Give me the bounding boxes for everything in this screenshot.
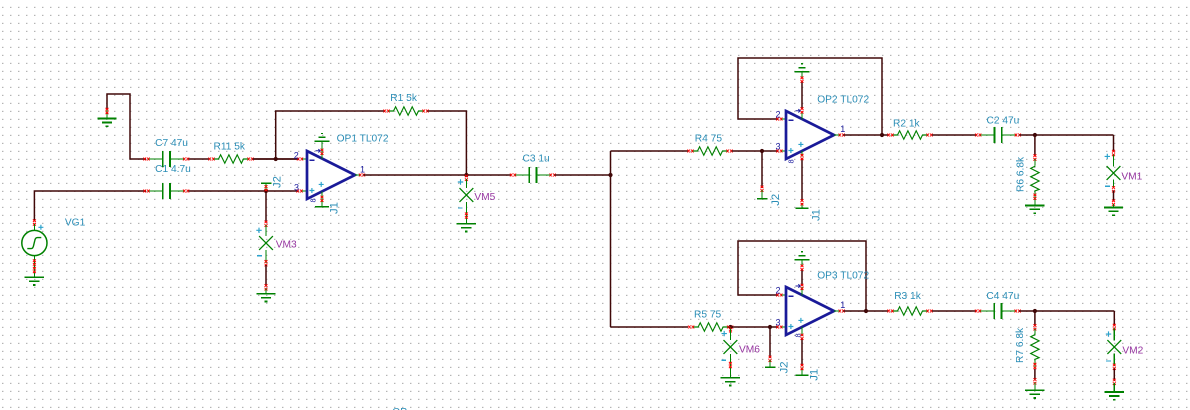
OP1 pin8 stem xyxy=(321,192,323,207)
svg-text:OP1 TL072: OP1 TL072 xyxy=(337,133,389,144)
wire OP3 pin8 xyxy=(801,338,803,367)
OP1 pin 2 number xyxy=(294,151,299,161)
wire OP1 output to C3 xyxy=(364,174,512,176)
wire VM2 to ground xyxy=(1113,369,1115,381)
resistor R5 75 xyxy=(688,310,733,332)
svg-text:VG1: VG1 xyxy=(65,217,86,228)
wire N1 to OP1 pin2 xyxy=(253,158,299,160)
voltmeter VM1 xyxy=(1105,154,1143,187)
VM1 minus pin tick xyxy=(1112,186,1115,192)
jumper J2 OP1 stem xyxy=(265,183,267,190)
VM2 top stem xyxy=(1113,329,1115,341)
wire N10 to VM1 xyxy=(1113,135,1115,152)
OP1 top power stem xyxy=(321,141,323,158)
OP2 top power stem lower xyxy=(801,112,803,119)
ground below VM1 xyxy=(1104,207,1123,215)
R6 bottom lead xyxy=(1034,192,1036,205)
svg-text:J2: J2 xyxy=(770,194,782,206)
svg-text:J2: J2 xyxy=(779,361,791,373)
OP1 pin 1 number xyxy=(360,165,365,175)
wire VM1 to ground xyxy=(1113,191,1115,202)
jumper J2 OP1 tick xyxy=(265,185,268,191)
wire R4 to OP2 pin3 xyxy=(732,150,778,152)
voltmeter VM3 xyxy=(256,228,297,256)
R7 ground tick xyxy=(1033,378,1036,384)
svg-text:J1: J1 xyxy=(809,369,821,381)
VG1 plus mark xyxy=(38,225,43,230)
jumper J2 OP3 stem xyxy=(769,360,771,367)
svg-text:J1: J1 xyxy=(329,202,341,214)
wire N10 down to R6 xyxy=(1034,135,1036,156)
OP3 pin8 ticks xyxy=(801,334,804,370)
OP3 pin 2 number xyxy=(776,286,781,296)
OP3 pin 1 number xyxy=(840,300,845,310)
OP2 pin8 stem lower xyxy=(801,203,803,208)
op-amp OP1 TL072 xyxy=(307,133,389,199)
svg-text:3: 3 xyxy=(776,142,781,152)
VM2 ground stem xyxy=(1113,383,1115,392)
svg-text:1: 1 xyxy=(360,165,365,175)
jumper J1 of OP1 xyxy=(315,206,329,208)
OP3 pin2 stub xyxy=(781,294,786,296)
wire ground G1 to C7 node xyxy=(107,94,146,159)
OP2 power ticks xyxy=(801,77,804,114)
capacitor C3 1u xyxy=(510,154,556,184)
op-amp OP2 TL072 xyxy=(786,94,869,159)
VM2 bottom stem xyxy=(1113,354,1115,366)
ground below VM5 xyxy=(457,224,476,232)
VM3 bottom stem xyxy=(265,250,267,263)
svg-text:8: 8 xyxy=(794,333,803,337)
VM1 ground tick xyxy=(1112,200,1115,206)
svg-text:R7 6.8k: R7 6.8k xyxy=(1015,327,1026,363)
svg-text:C4 47u: C4 47u xyxy=(986,291,1019,302)
R6 top lead xyxy=(1034,159,1036,165)
jumper J2 of OP2 xyxy=(757,198,768,200)
OP1 top power tick xyxy=(321,149,324,155)
svg-text:2: 2 xyxy=(294,151,299,161)
wire R11 to node N1 xyxy=(253,158,299,160)
OP2 pin8 stem upper xyxy=(801,151,803,157)
voltmeter VM6 xyxy=(722,331,761,360)
svg-text:8: 8 xyxy=(787,159,796,163)
wire VG1 to C1 xyxy=(34,191,146,222)
OP1 pin 8 number xyxy=(309,198,318,202)
R7 top tick xyxy=(1033,324,1036,330)
VM5 bottom stem xyxy=(465,202,467,224)
wire OP2 power xyxy=(801,81,803,109)
jumper J1 of OP2 xyxy=(796,207,809,209)
node N3 junction xyxy=(264,189,268,193)
svg-text:R11 5k: R11 5k xyxy=(214,142,246,153)
wire OP2 output to R2 xyxy=(844,134,889,136)
OP3 power pin arrow xyxy=(796,284,801,287)
clipped label at bottom edge xyxy=(392,407,407,410)
wire R1 to output node N2 xyxy=(428,111,467,174)
label J1 of OP3 xyxy=(809,369,821,381)
jumper J2 of OP3 xyxy=(765,366,776,368)
wire OP2 feedback loop xyxy=(738,58,882,134)
label J1 of OP2 xyxy=(811,209,823,221)
jumper J2 OP3 tick xyxy=(769,356,772,362)
svg-text:OP3 TL072: OP3 TL072 xyxy=(817,270,869,281)
OP2 plus input mark xyxy=(788,148,793,153)
OP2 power pin arrow xyxy=(796,109,801,112)
wire C2 to node N10 xyxy=(1020,134,1114,136)
voltage generator VG1 symbol xyxy=(22,217,86,255)
resistor R3 1k xyxy=(887,291,932,315)
node N10 junction xyxy=(1033,133,1037,137)
svg-text:VM1: VM1 xyxy=(1121,171,1142,182)
VM3 top stem xyxy=(265,225,267,236)
OP2 pin3 stub xyxy=(781,150,786,152)
resistor R1 5k xyxy=(383,93,428,115)
ground G1 xyxy=(97,119,116,127)
R7 ground stem xyxy=(1034,383,1036,391)
OP1 output tick xyxy=(359,174,365,177)
svg-text:2: 2 xyxy=(776,286,781,296)
node N4 junction xyxy=(608,173,612,177)
OP1 pin2 stub xyxy=(302,158,308,160)
node N2 junction xyxy=(464,173,468,177)
OP3 pin8 stem upper xyxy=(801,327,803,336)
OP3 input pin ticks xyxy=(776,294,782,329)
ground G1 stem xyxy=(106,110,108,119)
wire N11 down to R7 xyxy=(1034,311,1036,326)
capacitor C4 47u xyxy=(975,291,1021,319)
R6 top tick xyxy=(1033,154,1036,160)
node N6 junction xyxy=(880,133,884,137)
VG1 top pin tick xyxy=(33,219,36,225)
OP2 output tick xyxy=(839,134,845,137)
OP2 input pin ticks xyxy=(776,118,782,153)
OP1 power plus mark xyxy=(319,182,324,187)
resistor R2 1k xyxy=(887,118,932,139)
resistor R11 5k xyxy=(208,142,253,164)
resistor R6 6.8k xyxy=(1016,156,1040,192)
ground below VM3 xyxy=(256,294,275,302)
wire C4 to node N11 xyxy=(1019,310,1114,312)
resistor R4 75 xyxy=(687,133,732,155)
R7 bottom tick xyxy=(1033,363,1036,369)
label J1 of OP1 xyxy=(329,202,341,214)
capacitor C7 47u xyxy=(143,138,189,167)
capacitor C1 4.7u xyxy=(143,164,190,199)
svg-text:VM2: VM2 xyxy=(1122,346,1143,357)
svg-text:J1: J1 xyxy=(811,209,823,221)
VM1 ground stem xyxy=(1113,204,1115,207)
wire OP3 feedback loop xyxy=(738,241,866,310)
OP2 pin 2 number xyxy=(776,110,781,120)
resistor R7 6.8k xyxy=(1015,327,1039,363)
svg-text:VM5: VM5 xyxy=(474,192,495,203)
VM2 ground tick xyxy=(1113,379,1116,385)
VM1 plus pin tick xyxy=(1112,150,1115,156)
capacitor C2 47u xyxy=(975,115,1021,143)
voltmeter VM5 xyxy=(458,179,496,208)
OP1 minus input mark xyxy=(309,159,314,161)
ground below R6 xyxy=(1025,205,1044,213)
node N7 junction VM6 xyxy=(728,325,732,329)
label J2 of OP2 xyxy=(770,194,782,206)
wire OP3 output to R3 xyxy=(844,310,889,312)
wire C7 to R11 xyxy=(189,158,210,160)
wire N3 down to VM3 xyxy=(265,191,267,223)
VM5 minus pin tick xyxy=(465,213,468,219)
svg-text:VM6: VM6 xyxy=(739,344,760,355)
OP3 pin 8 number xyxy=(794,333,803,337)
OP3 top power stem lower xyxy=(801,287,803,295)
node N5 junction xyxy=(760,149,764,153)
VM1 top stem xyxy=(1113,155,1115,167)
VM1 bottom stem xyxy=(1113,180,1115,189)
svg-text:C1 4.7u: C1 4.7u xyxy=(155,164,191,175)
ground below R7 xyxy=(1025,390,1044,398)
wire R2 to C2 xyxy=(932,134,977,136)
OP3 plus input mark xyxy=(788,324,793,329)
VG1 bottom pin ticks xyxy=(33,259,36,273)
OP1 output stub xyxy=(355,174,361,176)
svg-text:R1 5k: R1 5k xyxy=(390,93,418,104)
OP3 pin 3 number xyxy=(776,318,781,328)
node N1 junction xyxy=(274,157,278,161)
wire VM3 to ground xyxy=(265,265,267,287)
wire N4 to R5 xyxy=(611,326,689,328)
OP1 power pin arrow xyxy=(316,149,321,152)
R7 bottom lead xyxy=(1034,361,1036,368)
OP3 output stub xyxy=(834,310,840,312)
label J2 of OP3 xyxy=(779,361,791,373)
op-amp OP3 TL072 xyxy=(786,270,869,335)
OP1 pin8 tick xyxy=(321,196,324,202)
OP1 pin 3 number xyxy=(294,183,299,193)
svg-text:J2: J2 xyxy=(272,176,284,188)
jumper J1 of OP3 xyxy=(796,374,809,376)
OP3 power plus mark xyxy=(798,318,803,323)
wire R5 to OP3 pin3 xyxy=(731,326,779,328)
wire N11 to VM2 xyxy=(1113,311,1115,326)
svg-text:1: 1 xyxy=(840,300,845,310)
OP3 positive supply bar xyxy=(794,252,809,260)
svg-text:3: 3 xyxy=(776,318,781,328)
svg-text:2: 2 xyxy=(776,110,781,120)
svg-text:C7 47u: C7 47u xyxy=(155,138,188,149)
OP2 pin 3 number xyxy=(776,142,781,152)
wire N4 to R4 xyxy=(611,150,689,152)
VM3 plus pin tick xyxy=(265,221,268,227)
ground below VM6 xyxy=(721,378,740,386)
wire C1 to node N3 xyxy=(189,190,299,192)
VM5 top stem xyxy=(465,179,467,188)
svg-text:8: 8 xyxy=(309,198,318,202)
jumper J2 OP2 stem xyxy=(761,190,763,199)
ground below VG1 xyxy=(25,277,44,285)
svg-text:R4 75: R4 75 xyxy=(695,133,723,144)
wire C3 to node N4 xyxy=(555,174,611,176)
wire N4 split vertical xyxy=(610,151,612,327)
VM6 bottom stem xyxy=(729,354,731,378)
OP2 power plus mark xyxy=(798,142,803,147)
VG1 bottom stem xyxy=(33,256,35,278)
node N11 junction xyxy=(1033,309,1037,313)
OP3 pin8 stem lower xyxy=(801,368,803,376)
wire N8 down to J2 xyxy=(769,327,771,358)
ground G1 pin tick xyxy=(106,108,109,114)
jumper J2 of OP1 xyxy=(261,182,272,184)
OP2 minus input mark xyxy=(788,119,793,121)
wire OP2 pin8 xyxy=(801,158,803,202)
OP1 positive supply bar xyxy=(314,134,329,142)
wire OP3 power xyxy=(801,269,803,286)
VM3 ground stem xyxy=(265,289,267,294)
jumper J2 OP2 tick xyxy=(761,186,764,192)
svg-text:R6 6.8k: R6 6.8k xyxy=(1016,156,1027,192)
OP3 top power stem upper xyxy=(801,260,803,267)
OP3 output tick xyxy=(839,310,845,313)
VM3 minus pin tick xyxy=(265,260,268,266)
OP2 pin 1 number xyxy=(840,124,845,134)
OP3 power ticks xyxy=(801,265,804,291)
VM2 minus pin tick xyxy=(1113,364,1116,370)
OP2 pin2 stub xyxy=(781,118,786,120)
svg-text:1: 1 xyxy=(840,124,845,134)
OP1 pin3 stub xyxy=(302,190,308,192)
VG1 top stem xyxy=(33,224,35,230)
OP2 top power stem upper xyxy=(801,72,803,79)
wire R3 to C4 xyxy=(932,310,976,312)
OP3 pin3 stub xyxy=(781,326,786,328)
VM3 ground pin tick xyxy=(265,284,268,290)
ground below VM2 xyxy=(1105,392,1124,400)
svg-text:R2 1k: R2 1k xyxy=(893,118,921,129)
svg-text:R5 75: R5 75 xyxy=(694,310,722,321)
node N9 junction xyxy=(864,309,868,313)
wire feedback up from N1 to R1 xyxy=(276,111,385,159)
OP2 positive supply bar xyxy=(794,64,809,72)
svg-text:R3 1k: R3 1k xyxy=(894,291,922,302)
svg-text:3: 3 xyxy=(294,183,299,193)
OP3 minus input mark xyxy=(788,295,793,297)
VM2 plus pin tick xyxy=(1113,324,1116,330)
node N8 junction xyxy=(768,325,772,329)
VM6 minus pin tick xyxy=(729,362,732,368)
R7 top lead xyxy=(1034,329,1036,334)
VM6 plus pin tick xyxy=(729,326,732,332)
OP2 pin8 ticks xyxy=(801,154,804,206)
voltmeter VM2 xyxy=(1106,331,1144,361)
OP2 pin 8 number xyxy=(787,159,796,163)
VM5 plus pin tick xyxy=(465,175,468,181)
wire N5 down to J2 xyxy=(761,151,763,188)
VM6 top stem xyxy=(729,329,731,341)
OP2 output stub xyxy=(834,134,840,136)
svg-text:VM3: VM3 xyxy=(276,239,297,250)
OP1 plus input mark xyxy=(309,188,314,193)
label J2 of OP1 xyxy=(272,176,284,188)
wire R7 to ground xyxy=(1034,369,1036,381)
R6 bottom tick xyxy=(1033,194,1036,200)
svg-text:C3 1u: C3 1u xyxy=(523,154,550,165)
svg-text:OP2 TL072: OP2 TL072 xyxy=(817,94,869,105)
svg-text:C2 47u: C2 47u xyxy=(987,115,1020,126)
OP1 input pin ticks xyxy=(296,158,303,193)
